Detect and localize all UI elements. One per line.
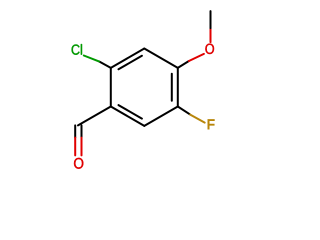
label F bbox=[208, 120, 214, 130]
label Cl bbox=[72, 44, 82, 55]
benzene ring edge V4-V5 bbox=[111, 107, 145, 126]
bond V3 to F: black half bbox=[178, 107, 190, 115]
bond V2 to O: red half near O bbox=[189, 54, 204, 61]
bond V2 to O: black half bbox=[178, 61, 189, 68]
C=O double bond line 2 red half bbox=[81, 138, 83, 156]
benzene ring edge V1-V2 bbox=[144, 49, 178, 68]
C=O double bond line 1 black half bbox=[74, 125, 76, 137]
bond V6 to Cl: green half near Cl bbox=[84, 56, 99, 62]
bond V6 to Cl: black half bbox=[99, 61, 111, 68]
benzene ring edge V2-V3 bbox=[177, 68, 179, 107]
benzene ring inner aromatic line of V4-V5 bbox=[119, 105, 142, 119]
bond V5 to aldehyde C bbox=[78, 107, 111, 126]
benzene ring edge V3-V4 bbox=[144, 107, 178, 126]
bond O to CH3: black half bbox=[210, 11, 212, 28]
benzene ring edge V6-V1 bbox=[111, 49, 145, 68]
label O methoxy bbox=[205, 44, 214, 54]
bond V3 to F: goldenrod half near F bbox=[190, 115, 205, 123]
C=O double bond line 2 black half bbox=[81, 125, 83, 137]
benzene ring inner aromatic line of V2-V3 bbox=[171, 74, 173, 101]
benzene ring edge V5-V6 bbox=[110, 68, 112, 107]
benzene ring inner aromatic line of V6-V1 bbox=[119, 56, 142, 70]
C=O double bond line 1 red half bbox=[74, 138, 76, 156]
bond O to CH3: red half near O bbox=[210, 28, 212, 42]
molecule: 2-chloro-5-fluoro-4-methoxybenzaldehyde skeletal structure bbox=[0, 0, 300, 176]
label O aldehyde bbox=[74, 158, 83, 169]
